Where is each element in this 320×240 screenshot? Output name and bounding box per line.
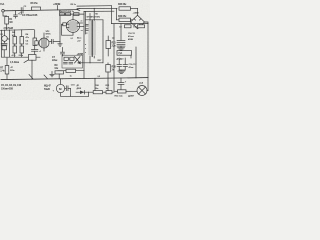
grid stopper box — [63, 23, 67, 26]
capacitor C1 inline — [20, 8, 22, 13]
resistor R32 — [118, 90, 127, 93]
wire double line upper1 — [77, 5, 112, 7]
capacitor C17 — [124, 58, 126, 64]
ground right — [118, 47, 125, 49]
arrowheads mid wire — [78, 62, 81, 63]
tube VL3 cathode lead — [72, 32, 74, 35]
bottom rail — [1, 78, 148, 80]
filter capacitors C9 C10 — [120, 24, 122, 41]
resistor in cluster — [2, 46, 7, 50]
transformer leads — [89, 14, 91, 21]
resistor row top box2 — [66, 13, 71, 16]
wire R33 branch — [116, 8, 118, 19]
wire R33 to bridge vertex — [130, 20, 132, 22]
capacitor C19 — [65, 86, 67, 91]
tube VL3 right leads — [77, 22, 83, 24]
resistor R9b — [55, 71, 64, 74]
vertical wire x60 lower — [59, 16, 61, 42]
rail +250 right — [112, 23, 149, 25]
capacitor C20 — [120, 78, 122, 82]
node dot transformer bottom lead — [90, 62, 91, 63]
dashed tone box — [62, 55, 83, 68]
resistor R22 — [66, 69, 76, 72]
node A junction — [15, 10, 16, 11]
coupling capacitor C5 — [49, 41, 52, 43]
ground near R9 — [51, 72, 53, 75]
paper grain overlay — [0, 0, 150, 100]
resistor R30 — [93, 91, 102, 94]
left edge vertical — [1, 30, 3, 57]
grid resistor small box — [35, 41, 38, 45]
wire bottom center — [76, 91, 114, 93]
wire lower-left bus — [2, 56, 41, 58]
node dot transformer top — [94, 8, 95, 9]
wire meter right — [147, 90, 148, 92]
stub on x114 — [112, 37, 114, 39]
tick below +300В — [57, 6, 59, 10]
tube VL3 grid electrodes — [68, 22, 70, 29]
transformer T1 secondary winding — [93, 21, 96, 56]
choke Dr1 — [125, 25, 132, 28]
bottom rail junction dots — [7, 79, 8, 80]
resistor R28 — [106, 65, 111, 73]
wire tube left down — [62, 24, 74, 35]
vertical wire x114 — [113, 24, 115, 91]
wire mic bottom — [61, 93, 89, 97]
resistor row top box3 — [74, 13, 80, 16]
tube VL3 anode lead — [72, 16, 74, 20]
wire rail mid-left — [1, 29, 35, 32]
resistor R31 — [106, 91, 112, 94]
arrow into rail 1 — [29, 75, 33, 79]
resistor R34 — [119, 7, 131, 10]
cathode capacitor marks — [86, 24, 88, 26]
vertical wire x85 — [84, 11, 86, 34]
capacitors inside box — [64, 61, 68, 63]
bridge rectifier D3-D6 — [131, 15, 145, 29]
wire below tone box — [58, 70, 84, 72]
resistor R5 — [20, 46, 24, 53]
capacitor C16 — [118, 58, 120, 64]
meter P1 — [137, 86, 147, 96]
resistor R2 — [13, 37, 17, 45]
capacitor C2 — [15, 11, 17, 15]
resistor R1 — [5, 17, 9, 25]
resistor R8 — [32, 7, 41, 10]
choke Dr2 — [138, 25, 145, 28]
resistor R6 — [33, 38, 37, 46]
wire mid horizontal — [78, 62, 103, 64]
transformer T1 primary winding — [89, 21, 92, 56]
capacitor in cluster — [4, 41, 6, 43]
resistor R33 — [119, 18, 131, 21]
diode D1 — [80, 91, 84, 95]
arrow into rail 2 — [44, 75, 48, 79]
vertical wire x103 — [102, 20, 104, 63]
vertical wire at x60 — [59, 10, 61, 14]
vertical wire x84 — [83, 11, 85, 78]
vertical wire x136 — [135, 47, 137, 78]
tube VL2 triode — [39, 38, 49, 48]
resistor inside box2 — [70, 57, 74, 60]
node dot after R30 — [104, 92, 105, 93]
input stage cluster circle — [2, 36, 8, 42]
wiper arrow — [24, 59, 30, 63]
wire caps join — [119, 69, 125, 71]
wire from jack down — [3, 12, 7, 16]
arrowhead on rail — [77, 9, 80, 10]
resistor R3 — [13, 46, 17, 53]
vertical wire x95 — [94, 78, 96, 90]
vertical wire right edge — [147, 24, 149, 91]
wire double line bend down — [111, 6, 113, 24]
speaker box Гр1 — [117, 51, 132, 56]
wire lower to diode wire — [88, 92, 90, 96]
wire bridge top — [137, 8, 139, 15]
tube VL3 envelope — [66, 20, 79, 33]
node junction x84 — [84, 62, 85, 63]
resistor R4 — [20, 37, 24, 45]
box above rail left-mid — [29, 55, 37, 61]
resistor R21 — [106, 41, 111, 49]
ground bottom right — [120, 69, 122, 72]
resistor inside box1 — [64, 57, 68, 60]
input jack Гн1 — [2, 10, 5, 13]
vertical wire x9.5 — [9, 30, 11, 57]
capacitor C6 — [32, 49, 38, 51]
transformer winding hatches — [89, 22, 96, 54]
output stage top wire — [84, 10, 114, 12]
capacitor C7 — [62, 48, 64, 53]
resistor R7 — [5, 66, 9, 75]
vertical wire x108 — [107, 78, 109, 90]
wire top rail left — [4, 10, 77, 11]
transformer core lines — [91, 20, 93, 57]
microphone M1 — [56, 84, 64, 92]
tube VL3 left grid leads — [66, 23, 69, 25]
resistor row top box1 — [60, 13, 65, 16]
ground symbol center — [59, 42, 61, 44]
wire bridge right — [145, 22, 149, 24]
wire from box to rail — [31, 60, 33, 79]
wire speaker box down — [130, 55, 132, 58]
crossing wires inside box — [75, 57, 81, 64]
wire transformer top — [85, 19, 103, 21]
wire through top resistor row — [60, 13, 84, 15]
wire double line upper2 — [77, 7, 117, 9]
